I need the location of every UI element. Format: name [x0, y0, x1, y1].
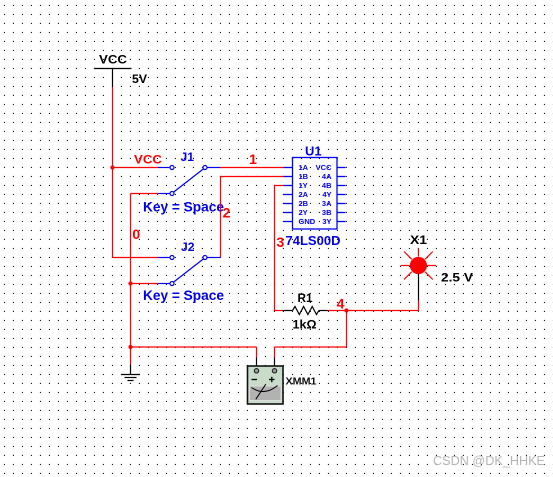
svg-text:3: 3 [277, 234, 285, 250]
pin labels U1 right [316, 163, 332, 226]
svg-text:1B: 1B [299, 172, 309, 181]
svg-text:VCC: VCC [316, 163, 332, 172]
svg-text:4: 4 [337, 296, 345, 312]
svg-text:X1: X1 [410, 233, 427, 247]
svg-text:1A: 1A [299, 163, 309, 172]
svg-text:VCC: VCC [134, 153, 162, 167]
switch J2 [158, 256, 221, 286]
svg-text:4B: 4B [322, 181, 332, 190]
svg-text:3A: 3A [322, 199, 332, 208]
svg-text:3B: 3B [322, 208, 332, 217]
svg-text:J1: J1 [181, 150, 195, 164]
svg-text:2: 2 [223, 205, 231, 221]
svg-text:3Y: 3Y [322, 217, 331, 226]
multimeter XMM1 [248, 358, 284, 405]
svg-text:2B: 2B [299, 199, 309, 208]
junction ground/XMM1 [128, 345, 132, 349]
svg-text:1Y: 1Y [299, 181, 308, 190]
junction VCC/J1 [110, 165, 114, 169]
probe X1 lead [418, 274, 420, 301]
svg-text:R1: R1 [298, 291, 313, 305]
wire net 4 (R1 to X1 and XMM1) [275, 301, 419, 358]
wire VCC to J1 [113, 167, 159, 169]
junction net4 [344, 308, 348, 312]
pin labels U1 left [299, 163, 316, 226]
wire net 2 (J2 to U1 pin 1B) [221, 177, 284, 258]
svg-text:4A: 4A [322, 172, 332, 181]
svg-text:Key = Space: Key = Space [143, 200, 224, 215]
svg-text:4Y: 4Y [322, 190, 331, 199]
svg-text:74LS00D: 74LS00D [286, 233, 341, 248]
wire net 3 (U1 1Y to R1) [275, 186, 284, 311]
svg-text:GND: GND [299, 217, 316, 226]
IC U1 74LS00D [284, 158, 346, 230]
svg-text:5V: 5V [132, 72, 147, 86]
svg-text:J2: J2 [181, 240, 195, 254]
resistor R1 [283, 307, 328, 315]
svg-text:1: 1 [249, 151, 257, 167]
power VCC symbol [94, 69, 132, 88]
svg-text:VCC: VCC [99, 53, 127, 67]
svg-text:U1: U1 [305, 144, 322, 159]
wire VCC vertical [113, 87, 159, 258]
svg-text:Key = Space: Key = Space [143, 288, 224, 303]
wire net 1 (J1 to U1 pin 1A) [220, 167, 284, 169]
svg-text:1kΩ: 1kΩ [293, 318, 317, 332]
svg-text:0: 0 [132, 226, 140, 242]
probe X1 [401, 249, 437, 280]
svg-text:XMM1: XMM1 [286, 376, 317, 388]
svg-text:2Y: 2Y [299, 208, 308, 217]
junction J2/net0 [128, 281, 132, 285]
svg-text:2.5 V: 2.5 V [441, 271, 473, 285]
wire net 0 (ground net) [131, 194, 257, 365]
svg-text:2A: 2A [299, 190, 309, 199]
ground [121, 365, 140, 381]
switch J1 [158, 166, 220, 196]
svg-text:CSDN @DK_HHKE: CSDN @DK_HHKE [433, 453, 545, 468]
